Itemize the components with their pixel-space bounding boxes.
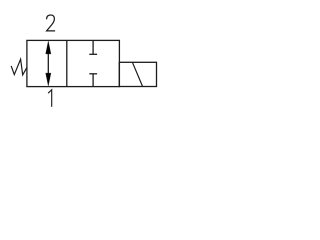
position divider line (66, 40, 68, 86)
solenoid actuator box (right side) (119, 62, 156, 86)
return spring (left side) (11, 59, 27, 75)
blocked port T bottom (right position) (89, 74, 97, 87)
blocked port T top (right position) (89, 40, 97, 54)
port label 1 (48, 90, 51, 107)
flow-path double arrow (left position, ports 2-1 open) (46, 41, 51, 86)
valve body V1 (2-position envelope) (27, 40, 120, 86)
port label 2 (47, 15, 55, 31)
solenoid diagonal stroke (132, 62, 142, 86)
